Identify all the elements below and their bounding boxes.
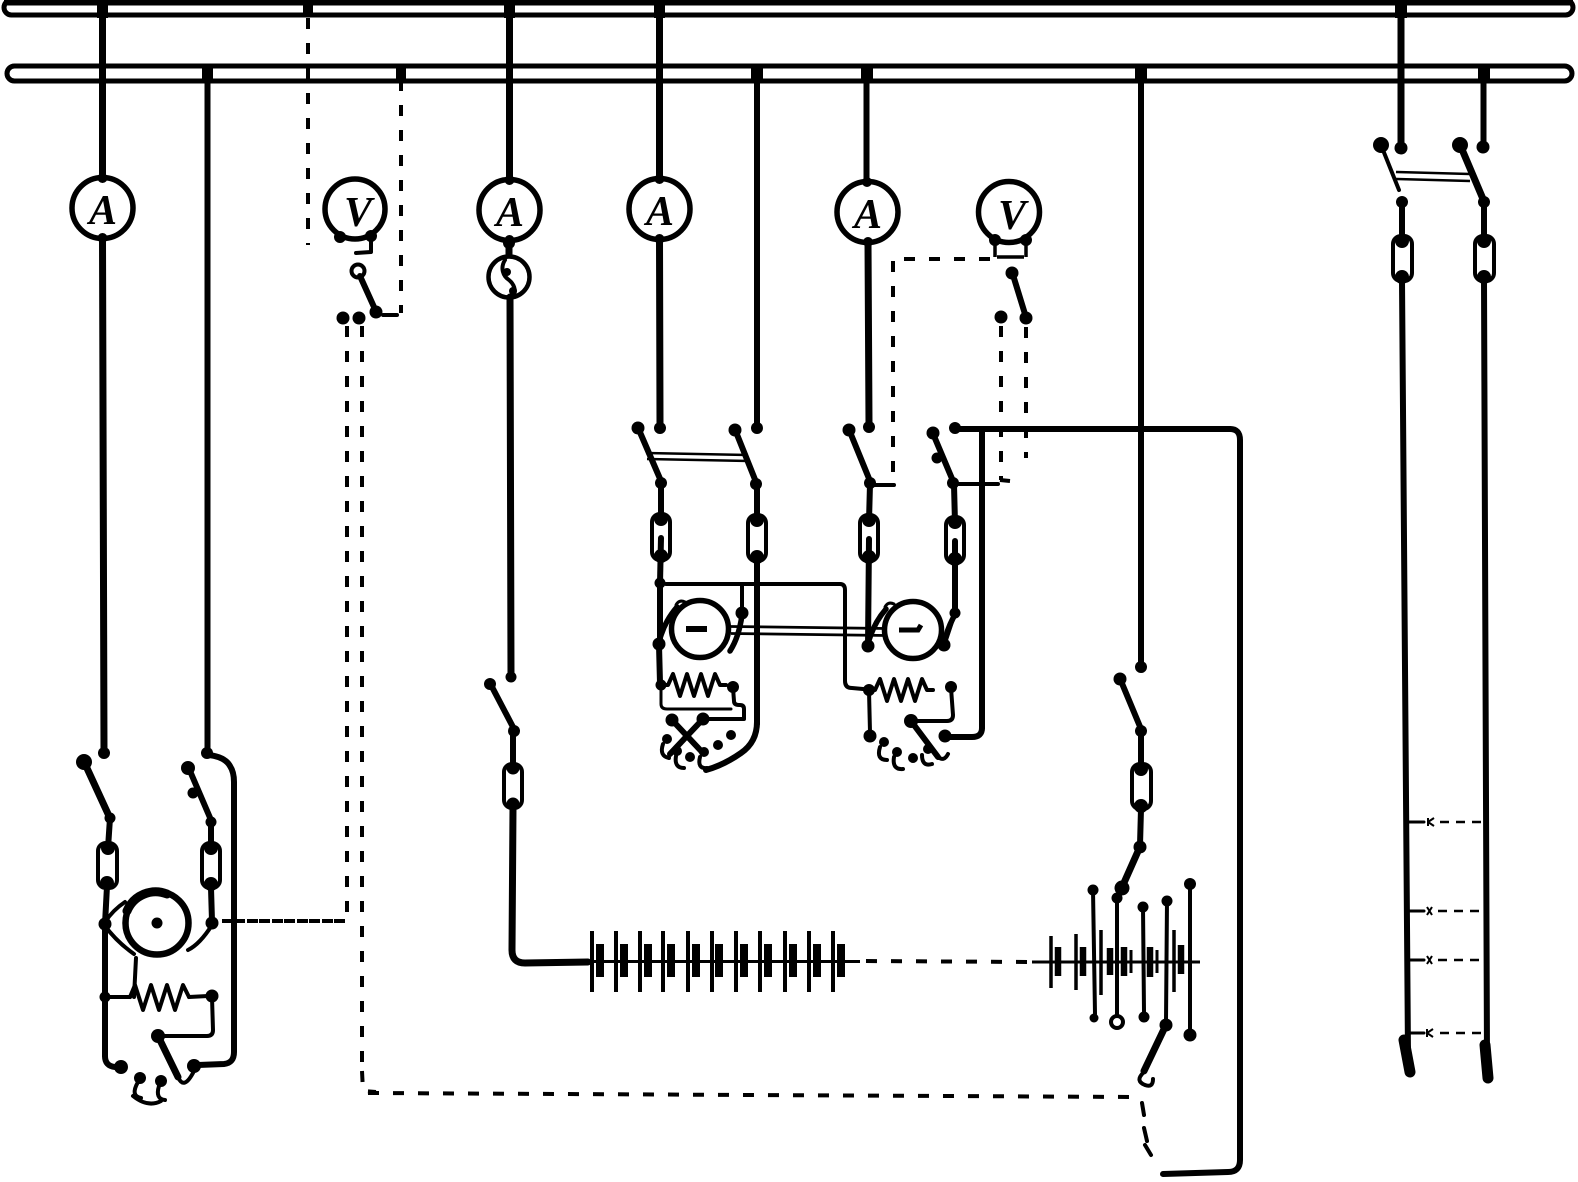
wire: R3 right end down to regulator arm pivot bbox=[904, 688, 953, 728]
wire: dashed from V1 selector middle contact down to bottom dashed rail bbox=[362, 326, 1137, 1097]
svg-text:A: A bbox=[643, 189, 674, 235]
wire: A3 down to machine-2 left switch bbox=[656, 239, 664, 423]
bus B2 (second busbar, negative) bbox=[7, 66, 1572, 81]
fuse F2 machine-1 right bbox=[202, 822, 220, 891]
switch S-V2 (voltmeter 2 selector) bbox=[995, 267, 1033, 325]
starter studs of machine 1 bbox=[133, 1072, 167, 1104]
fuse F9 right feeder left pole bbox=[1393, 203, 1412, 284]
fuse F5 machine-2 right bbox=[748, 485, 766, 564]
regulator arm of machine 1 bbox=[158, 1036, 194, 1083]
switch S-CH (charging circuit knife switch, open) bbox=[1114, 661, 1148, 737]
wire: machine-1 starting bypass (from right switch top over and down) bbox=[187, 755, 234, 1073]
wire: tap from bus B1 to right feeder switch bbox=[1395, 0, 1407, 146]
ammeter A1 bbox=[72, 173, 133, 243]
fuse F8 charging circuit bbox=[1132, 732, 1151, 813]
link bar of machine-2 double-pole switch bbox=[646, 453, 749, 461]
G1 right brush bbox=[188, 917, 219, 951]
wire: machine-2 starting bypass from right fuse down to last stud bbox=[706, 560, 757, 770]
cell-switch tap T2 bbox=[1111, 893, 1123, 1029]
G2 right brush bbox=[730, 585, 749, 651]
wire: feeder tap from bus B1 to ammeter A2 bbox=[504, 0, 515, 180]
cell-switch arm (charging) bbox=[1115, 809, 1147, 896]
switch S-M2R (machine 2 right pole, open) bbox=[729, 422, 764, 490]
wire: tap from bus B2 down to machine-2 right switch bbox=[751, 66, 763, 423]
fuse F7 machine-3 right bbox=[946, 485, 964, 566]
wire: dashed from V1 selector left contact down to dynamo G1 brush bbox=[222, 326, 347, 921]
wire: V1 bottom terminals and lead to selector pivot bbox=[334, 230, 377, 253]
wire: fuse F1 down to G1 left brush and on down bbox=[100, 886, 129, 1074]
voltmeter V1 bbox=[325, 179, 385, 239]
wire: dashed tap from bus B2 down to V1 selector contact bbox=[396, 68, 406, 313]
discharge switch blade at battery BT2 bottom bbox=[1139, 1027, 1165, 1155]
switch S-V1 (voltmeter selector) bbox=[337, 265, 398, 325]
bus B1 (top busbar, positive) bbox=[4, 0, 1573, 15]
ammeter A4 bbox=[837, 177, 898, 247]
wire: dashed drops below V2 selector contacts bbox=[1000, 326, 1026, 481]
wire: A1 down to machine-1 left switch bbox=[103, 238, 105, 752]
meter shunt/relay S1 below A2 bbox=[489, 237, 530, 298]
wire: machine-2 armature frame (left branch to cross link) bbox=[655, 538, 864, 689]
generator G3 (armature) bbox=[885, 602, 942, 659]
cell-switch tap T3 bbox=[1138, 902, 1150, 1023]
wire: dashed tap from bus B1 toward voltmeter V1 bbox=[303, 0, 313, 245]
dynamo G1 bbox=[126, 892, 189, 955]
wire: tap from bus B2 down to charging switch bbox=[1135, 66, 1147, 667]
cell-switch tap T5 bbox=[1184, 878, 1197, 1042]
wire: feeder tap from bus B1 to ammeter A3 bbox=[654, 0, 665, 179]
double-pole switch S-DP right feeders (open) bbox=[1373, 137, 1490, 208]
fuse F1 machine-1 left bbox=[98, 818, 117, 890]
ammeter A3 bbox=[629, 174, 690, 244]
wire: dashed link from BT1 to charging battery BT2 bbox=[866, 961, 1032, 962]
wire: A2 circuit down to battery switch bbox=[510, 297, 511, 677]
ladder rung 3 bbox=[1407, 956, 1485, 964]
wire: R2 right end down to regulator arm pivot bbox=[697, 688, 745, 726]
battery BT2 (charging cells with taps) bbox=[1032, 930, 1200, 995]
load resistor ladder right rail bbox=[1484, 281, 1488, 1078]
wire: R1 right end down to arm pivot bbox=[151, 997, 213, 1043]
starter studs of machine 2 bbox=[662, 730, 736, 768]
wire: V2 bottom terminal yoke bbox=[989, 234, 1032, 257]
wire: tap from bus B2 down to machine-1 right switch bbox=[202, 66, 213, 753]
wire: machine-3 left branch fuse to brush bbox=[868, 539, 869, 646]
svg-text:A: A bbox=[851, 192, 882, 238]
fuse F6 machine-3 left bbox=[860, 484, 878, 564]
regulator arm of machine 2 bbox=[666, 714, 704, 755]
wire: A4 down to machine-3 left switch bbox=[868, 242, 869, 423]
shaft coupling G2-G3 bbox=[731, 627, 887, 636]
starter studs of machine 3 bbox=[864, 691, 952, 769]
switch S-A2 (battery feeder knife switch, open) bbox=[484, 672, 520, 738]
cell-switch tap T1 bbox=[1088, 885, 1099, 1023]
wire: machine-3 right branch fuse to brush bbox=[945, 541, 961, 643]
ladder rung 1 bbox=[1406, 818, 1483, 826]
wire: tap from bus B2 down to ammeter A4 bbox=[861, 66, 873, 182]
G2 left brush bbox=[653, 601, 686, 651]
machine 1: switch S-M1L (left pole, open) bbox=[76, 747, 116, 824]
svg-text:V: V bbox=[344, 190, 375, 236]
wire: feeder tap from bus B1 to ammeter A1 bbox=[97, 0, 108, 178]
G3 right brush bbox=[938, 613, 957, 652]
fuse F10 right feeder right pole bbox=[1475, 203, 1494, 284]
svg-text:A: A bbox=[86, 188, 117, 234]
field rheostat R2 (zigzag) of machine 2 bbox=[656, 674, 740, 696]
load resistor ladder left rail bbox=[1402, 281, 1410, 1072]
G3 left brush bbox=[862, 603, 895, 653]
wire: fuse F3 down and over to battery BT1 bbox=[512, 808, 588, 963]
wire: machine-3 charging loop (top horizontal to right drop) bbox=[955, 429, 1240, 1174]
wire: machine-3 starting bypass from loop down to last stud bbox=[950, 429, 982, 737]
wire: dashed from V2 yoke left to measuring loop bbox=[870, 259, 990, 485]
fuse F4 machine-2 left bbox=[652, 484, 670, 563]
fuse F3 in battery feeder bbox=[504, 731, 522, 811]
switch S-M2L (machine 2 left pole, open) with link bar bbox=[632, 422, 668, 490]
machine 1: switch S-M1R (right pole, open) bbox=[181, 747, 217, 828]
wire: armature lower lead to field bbox=[134, 958, 136, 997]
G1 left brush bbox=[99, 902, 135, 954]
wire: tap from bus B2 to right feeder switch bbox=[1478, 66, 1490, 143]
field rheostat R3 (zigzag) of machine 3 bbox=[863, 679, 957, 701]
generator G2 (armature) bbox=[672, 601, 729, 658]
field rheostat R1 (zigzag) of machine 1 bbox=[105, 985, 219, 1010]
switch S-M3R (machine 3 right pole, open) bbox=[927, 422, 999, 489]
wire: G2 left brush down to field rheostat R2 bbox=[659, 645, 660, 683]
regulator arm of machine 3 bbox=[911, 721, 948, 759]
ladder rung 4 bbox=[1407, 1029, 1485, 1037]
wire: R2 left end lower lead bbox=[661, 686, 731, 709]
wire: fuse F2 down to G1 right brush bbox=[211, 888, 212, 921]
battery BT1 (11 cells) bbox=[588, 931, 860, 992]
ladder rung 2 bbox=[1406, 907, 1484, 915]
svg-text:V: V bbox=[998, 193, 1029, 239]
svg-text:A: A bbox=[493, 190, 524, 236]
wire: dashed from G1 right brush to V1 circuit bbox=[222, 919, 345, 923]
switch S-M3L (machine 3 left pole, open) bbox=[843, 421, 877, 489]
voltmeter V2 bbox=[979, 182, 1040, 243]
ammeter A2 bbox=[479, 175, 540, 245]
cell-switch tap T4 bbox=[1160, 896, 1173, 1032]
